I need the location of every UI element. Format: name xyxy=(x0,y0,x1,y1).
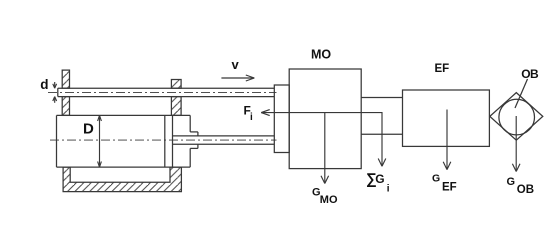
workpiece OB diamond xyxy=(490,93,543,141)
rod shoulder xyxy=(190,132,198,149)
svg-text:EF: EF xyxy=(442,182,457,194)
svg-text:MO: MO xyxy=(320,194,338,206)
cylinder centerline xyxy=(50,139,277,141)
svg-text:OB: OB xyxy=(517,184,534,196)
frame post right lower section xyxy=(171,97,181,116)
box MO xyxy=(289,69,361,169)
svg-text:G: G xyxy=(375,172,384,186)
svg-text:i: i xyxy=(387,184,390,195)
wire MO-EF upper xyxy=(361,97,402,99)
svg-text:OB: OB xyxy=(521,67,539,81)
cylinder body D xyxy=(57,115,191,167)
OB leader line xyxy=(515,79,528,108)
svg-text:i: i xyxy=(250,112,253,123)
svg-text:G: G xyxy=(432,172,440,184)
arrow v xyxy=(221,75,254,81)
coupling block xyxy=(274,85,289,153)
dimension D arrow xyxy=(98,115,102,167)
wire MO-EF lower xyxy=(361,133,402,135)
svg-text:D: D xyxy=(83,121,94,138)
arrow G_MO xyxy=(321,113,329,184)
svg-text:G: G xyxy=(507,176,516,188)
frame post right upper section xyxy=(171,80,181,89)
box EF xyxy=(403,90,490,146)
svg-text:v: v xyxy=(232,57,240,72)
piston rod d (top rod) xyxy=(58,88,274,96)
arrow G_OB xyxy=(512,116,520,172)
piston rod lower xyxy=(173,136,275,144)
frame post left lower section xyxy=(62,97,69,116)
svg-text:MO: MO xyxy=(311,48,331,62)
top rod centerline xyxy=(48,91,277,93)
workpiece OB circle xyxy=(499,99,535,135)
base channel (hatched U support) xyxy=(63,167,181,192)
arrow Fi with sum Gi drop xyxy=(261,110,386,167)
frame post left upper section xyxy=(62,70,69,88)
cylinder end cap right edge xyxy=(189,115,191,167)
dimension d arrows xyxy=(53,82,57,103)
svg-text:d: d xyxy=(40,77,48,92)
cylinder end wall lines xyxy=(165,115,173,167)
arrow G_EF xyxy=(443,110,451,170)
svg-text:EF: EF xyxy=(435,63,450,75)
